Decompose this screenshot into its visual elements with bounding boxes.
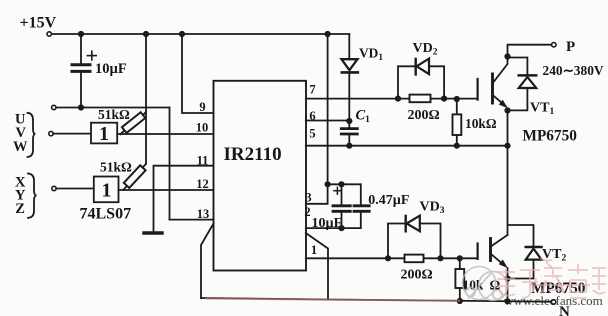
wire pin7 HO line bbox=[306, 98, 478, 100]
watermark chinese characters bbox=[497, 264, 606, 298]
diode VD1 lead from rail bbox=[348, 34, 350, 59]
wire phase output down bbox=[507, 146, 509, 235]
svg-text:1: 1 bbox=[102, 180, 112, 202]
node 10k top junction bbox=[454, 96, 460, 102]
diode VD3 loop bbox=[388, 224, 441, 259]
wire VSS to N rail bbox=[201, 224, 214, 299]
svg-text:W: W bbox=[13, 139, 28, 155]
label plus sign of 10uF bbox=[91, 51, 93, 60]
wire 0V down to VSS pin13 bbox=[169, 108, 171, 220]
node pin5 phase junction bbox=[504, 143, 510, 149]
diode VD3 cathode bar bbox=[405, 216, 407, 231]
diode VD2 loop bbox=[398, 66, 444, 98]
diode D1 freewheel bottom lead bbox=[508, 88, 528, 110]
wire decoupling bottom rail pin2 COM bbox=[306, 212, 361, 228]
op-amp U1 IR2110 box bbox=[214, 81, 307, 271]
wire to VT2 freewheel bbox=[508, 225, 534, 246]
svg-text:1: 1 bbox=[311, 243, 317, 257]
wire VT2 emitter down to N bbox=[507, 268, 509, 301]
node P terminal bbox=[552, 43, 556, 47]
node VT1 collector junction bbox=[504, 53, 510, 59]
node X input terminal bbox=[52, 186, 56, 190]
watermark stamp circles bbox=[463, 267, 508, 301]
resistor 10k (lower) leads bbox=[459, 258, 461, 269]
brace UVW bbox=[28, 113, 36, 157]
node VT2 emitter N junction bbox=[504, 298, 510, 304]
node C1-pin5 junction bbox=[346, 143, 352, 149]
svg-text:240∼380V: 240∼380V bbox=[543, 63, 604, 78]
svg-text:P: P bbox=[566, 39, 575, 55]
capacitor 10uF (VCC) leads bbox=[341, 184, 343, 204]
buffer 74LS07 gate B bbox=[94, 177, 119, 203]
diode D1 freewheel triangle bbox=[519, 77, 537, 88]
diode VD2 cathode bar bbox=[415, 59, 417, 75]
resistor 200 ohm (upper) bbox=[410, 95, 431, 103]
capacitor C1 plates bbox=[341, 127, 357, 130]
wire 0V return line bbox=[56, 107, 170, 109]
node 10k lower top junction bbox=[457, 255, 463, 261]
node VD3 right junction bbox=[437, 255, 443, 261]
node U input terminal bbox=[49, 131, 53, 135]
node +15V terminal bbox=[47, 32, 51, 36]
svg-text:12: 12 bbox=[196, 177, 209, 191]
svg-text:MP6750: MP6750 bbox=[523, 127, 578, 144]
capacitor 10uF (supply) plates bbox=[72, 63, 90, 66]
node 10k lower bottom junction bbox=[457, 298, 463, 304]
node 10k bottom junction bbox=[454, 143, 460, 149]
node rail-cap junction bbox=[78, 31, 84, 37]
svg-text:+15V: +15V bbox=[20, 15, 57, 32]
resistor 10k (upper) body bbox=[453, 114, 462, 135]
watermark red tint on N rail bbox=[205, 299, 460, 301]
node 0V terminal bbox=[52, 105, 56, 109]
node VD2 right junction bbox=[441, 96, 447, 102]
wire pin11 SD line bbox=[154, 166, 214, 232]
node VT1 emitter junction bbox=[504, 107, 510, 113]
svg-text:10µF: 10µF bbox=[95, 61, 127, 77]
wire COM diagonal to N rail bbox=[306, 233, 328, 300]
svg-text:VD1: VD1 bbox=[359, 45, 383, 62]
svg-text:74LS07: 74LS07 bbox=[80, 205, 132, 222]
wire N rail bbox=[201, 298, 551, 302]
resistor 10k (upper) leads bbox=[456, 99, 458, 114]
svg-text:3: 3 bbox=[305, 191, 311, 205]
transistor Q1 VT1 emitter bbox=[493, 95, 506, 106]
node rail-VCC junction bbox=[325, 31, 331, 37]
diode VD2 triangle bbox=[417, 59, 429, 75]
wire U input to buffer bbox=[53, 133, 92, 135]
diode D1 freewheel cathode bar bbox=[519, 74, 537, 77]
node VD2 left junction bbox=[395, 96, 401, 102]
node VD3 left junction bbox=[385, 255, 391, 261]
resistor 51k (upper) leads bbox=[120, 130, 125, 135]
wire pin12 LIN line bbox=[119, 189, 214, 191]
svg-text:VD2: VD2 bbox=[413, 41, 438, 58]
capacitor 0.47uF plates bbox=[354, 204, 369, 207]
svg-text:1: 1 bbox=[99, 123, 109, 145]
node rail-pin9 junction bbox=[179, 31, 185, 37]
resistor 51k (upper) body bbox=[122, 112, 145, 133]
diode VD1 triangle bbox=[342, 59, 358, 70]
transistor Q1 VT1 collector bbox=[493, 57, 508, 84]
svg-text:9: 9 bbox=[199, 100, 205, 114]
svg-text:0.47µF: 0.47µF bbox=[368, 193, 409, 208]
node VCC-decoupling junction bbox=[325, 181, 331, 187]
svg-text:Z: Z bbox=[15, 201, 25, 217]
diode D1 freewheel top lead bbox=[508, 58, 528, 75]
svg-text:www.elecfans.com: www.elecfans.com bbox=[504, 293, 603, 308]
node pin6-C1 junction bbox=[346, 118, 352, 124]
ground bbox=[144, 231, 162, 234]
resistor 200 ohm (lower) bbox=[405, 255, 424, 263]
node cap bottom junction bbox=[78, 104, 84, 110]
svg-text:200Ω: 200Ω bbox=[401, 267, 433, 282]
wire pin9 VDD from rail bbox=[182, 34, 214, 113]
svg-text:7: 7 bbox=[309, 83, 315, 97]
transistor Q2 VT2 body bar bbox=[489, 239, 492, 261]
wire VD1 cathode to pin6 bbox=[348, 72, 350, 121]
wire pin10 HIN line bbox=[117, 133, 213, 135]
svg-text:C1: C1 bbox=[356, 108, 371, 126]
transistor Q1 VT1 body bar bbox=[491, 74, 494, 103]
node VT2 freewheel junction bbox=[504, 275, 510, 281]
wire pin1 LO line bbox=[306, 257, 478, 259]
buffer 74LS07 gate A bbox=[91, 123, 117, 144]
label plus sign of VCC cap bbox=[336, 187, 338, 194]
wire +15V pullup column bbox=[145, 34, 147, 164]
wire VT1 collector to P bbox=[508, 45, 552, 57]
transistor Q2 VT2 gate bar bbox=[477, 244, 479, 259]
diode D2 freewheel triangle bbox=[526, 249, 542, 260]
svg-text:IR2110: IR2110 bbox=[224, 144, 282, 165]
resistor 10k (lower) body bbox=[455, 269, 464, 288]
wire VCC column from rail bbox=[306, 34, 328, 204]
diode D2 freewheel cathode bar bbox=[526, 246, 542, 249]
resistor 51k (lower) leads bbox=[123, 185, 128, 190]
transistor Q1 VT1 gate bar bbox=[477, 79, 479, 100]
node rail-pullup junction bbox=[143, 31, 149, 37]
wire pin5 VS line bbox=[306, 145, 508, 147]
svg-text:5: 5 bbox=[309, 127, 315, 141]
svg-text:VT1: VT1 bbox=[530, 100, 554, 117]
svg-text:13: 13 bbox=[197, 207, 210, 221]
diode VD3 triangle bbox=[407, 216, 420, 232]
svg-text:2: 2 bbox=[304, 205, 310, 219]
svg-text:10: 10 bbox=[196, 120, 209, 134]
transistor Q2 VT2 collector bbox=[491, 235, 508, 247]
capacitor 10uF (VCC) plates bbox=[333, 204, 350, 207]
svg-text:51kΩ: 51kΩ bbox=[98, 107, 130, 122]
capacitor 10uF (supply) leads bbox=[80, 34, 82, 64]
wire pin13 VSS line bbox=[170, 219, 214, 221]
diode D2 freewheel bottom lead bbox=[508, 260, 534, 279]
svg-text:200Ω: 200Ω bbox=[408, 108, 440, 123]
node cap10u bottom junction bbox=[338, 225, 344, 231]
svg-text:51kΩ: 51kΩ bbox=[100, 159, 132, 174]
wire X input to buffer bbox=[56, 188, 94, 190]
transistor Q2 VT2 emitter bbox=[491, 254, 505, 266]
wire VT1 emitter to pin5 bbox=[507, 110, 509, 145]
svg-text:11: 11 bbox=[197, 154, 209, 168]
svg-text:10µF: 10µF bbox=[312, 216, 343, 231]
wire +15V rail bbox=[51, 33, 349, 35]
brace XYZ bbox=[28, 174, 37, 218]
svg-text:10kΩ: 10kΩ bbox=[465, 116, 497, 131]
svg-text:VD3: VD3 bbox=[420, 200, 445, 217]
resistor 51k (lower) body bbox=[124, 165, 146, 188]
wire decoupling top rail bbox=[328, 184, 361, 204]
node cap10u top junction bbox=[338, 181, 344, 187]
capacitor C1 leads bbox=[348, 121, 350, 128]
watermark pink strokes over MP6750 bbox=[530, 258, 590, 292]
wire pin6 VB line bbox=[306, 120, 350, 122]
node N terminal bbox=[551, 300, 555, 304]
diode VD1 cathode bar bbox=[342, 71, 358, 74]
